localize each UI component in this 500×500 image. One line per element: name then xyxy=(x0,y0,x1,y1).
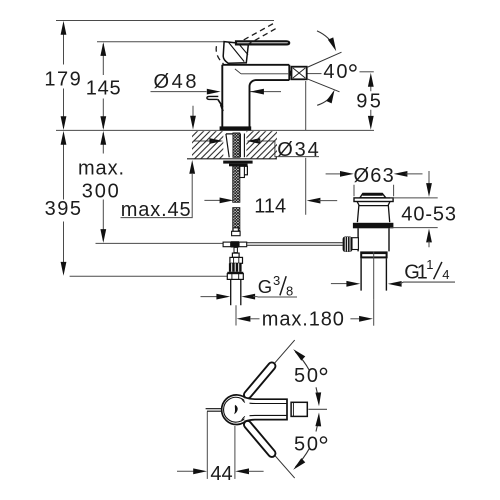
svg-text:179: 179 xyxy=(44,68,82,90)
deck hatching right xyxy=(246,131,277,158)
dimension max.180 xyxy=(236,300,374,326)
side outlet knurled knob xyxy=(343,237,353,252)
waste collar xyxy=(360,251,387,258)
pop-up waste body xyxy=(358,228,389,251)
pop-up waste cap dome xyxy=(360,193,386,197)
svg-text:max.45: max.45 xyxy=(121,199,192,221)
handle mark (comma) xyxy=(234,405,237,414)
svg-text:95: 95 xyxy=(356,91,383,113)
body circle inner xyxy=(224,397,248,422)
svg-text:G: G xyxy=(258,276,272,297)
svg-text:4: 4 xyxy=(442,267,449,282)
spout inner line xyxy=(235,69,288,74)
svg-text:300: 300 xyxy=(82,181,121,203)
svg-text:145: 145 xyxy=(86,78,121,100)
svg-text:114: 114 xyxy=(254,195,286,217)
spray nozzle connector xyxy=(290,71,292,76)
handle arm lower (50 deg) xyxy=(248,425,272,454)
supply connector body xyxy=(230,257,243,263)
svg-text:50: 50 xyxy=(294,365,320,387)
pop-up rod in hole xyxy=(240,134,244,158)
dimension Ø63 xyxy=(326,171,423,196)
shank cone in deck hole xyxy=(226,134,233,157)
spray angle fan lines xyxy=(307,52,342,92)
reference line lever height 145 xyxy=(97,41,224,43)
threaded shank through deck xyxy=(233,133,240,157)
swivel line upper 50 xyxy=(249,340,295,393)
pop-up rod guide block xyxy=(240,166,248,175)
deck bottom line xyxy=(187,158,277,160)
handle lever (solid bar) xyxy=(236,41,289,44)
swivel arc lower xyxy=(291,412,322,471)
spout plan inner lines xyxy=(250,403,288,416)
body circle outer xyxy=(222,395,248,425)
supply stem xyxy=(234,247,237,252)
label G3/8 leader xyxy=(201,294,298,300)
pop-up rod horizontal (left reference) xyxy=(96,242,224,244)
svg-text:3: 3 xyxy=(273,273,280,288)
supply connector cap xyxy=(232,253,239,257)
supply pipe G3/8 xyxy=(231,279,241,305)
pop-up knob on body xyxy=(207,96,218,99)
svg-text:Ø34: Ø34 xyxy=(277,139,321,161)
dimension 395 xyxy=(61,131,67,276)
dimension 145 xyxy=(100,42,106,130)
tailpipe centerline xyxy=(373,251,375,299)
spout plan outline xyxy=(244,397,287,421)
degree symbol 50 upper xyxy=(320,368,326,374)
pop-up waste neck xyxy=(357,202,390,223)
label Ø34 with leader box xyxy=(194,138,320,157)
spout junction fillets xyxy=(242,399,245,420)
reference line bottom of supply (395) xyxy=(70,275,227,277)
faucet body outline (front view) xyxy=(222,65,289,127)
dimension 95 xyxy=(307,72,374,130)
dimension 179 xyxy=(61,21,67,130)
svg-text:max.180: max.180 xyxy=(262,309,345,331)
rod coupler xyxy=(233,228,238,231)
dimension 40-53 xyxy=(390,171,438,247)
threaded shank below deck (lower) xyxy=(233,208,240,232)
dimension max.300 xyxy=(100,131,106,243)
supply knurled nut xyxy=(229,263,242,272)
svg-text:1: 1 xyxy=(426,257,433,272)
pop-up rod horizontal to drain xyxy=(247,243,343,246)
handle arm upper (50 deg) xyxy=(248,366,272,395)
svg-text:8: 8 xyxy=(286,284,293,299)
base flange on deck xyxy=(220,126,252,130)
aerator plan xyxy=(291,402,307,416)
handle hub xyxy=(223,42,248,64)
pop-up cross connector xyxy=(223,242,231,247)
reference line top (overall height 179) xyxy=(56,20,274,22)
swivel arc upper xyxy=(291,347,322,406)
pop-up waste flange xyxy=(354,198,393,202)
svg-text:Ø48: Ø48 xyxy=(154,71,200,93)
mounting deck top line xyxy=(56,129,374,131)
svg-text:395: 395 xyxy=(45,198,83,220)
svg-text:40: 40 xyxy=(323,61,349,83)
svg-text:max.: max. xyxy=(78,157,125,179)
mounting nut below deck xyxy=(229,164,248,167)
slash G3/8 xyxy=(280,276,286,295)
deck hatching left xyxy=(192,131,223,158)
degree symbol 50 lower xyxy=(320,437,326,443)
svg-text:Ø63: Ø63 xyxy=(354,165,395,187)
handle lever raised (dashed) xyxy=(216,23,278,65)
spray nozzle (aerator) xyxy=(292,67,307,80)
svg-text:40-53: 40-53 xyxy=(401,204,457,226)
slash G1 1/4 xyxy=(434,262,442,279)
mounting washer below deck xyxy=(223,161,252,164)
pop-up waste O-ring xyxy=(353,223,394,229)
label G1 1/4 leader xyxy=(331,281,455,287)
spray angle arc arrows xyxy=(317,31,335,48)
dimension 44 xyxy=(177,412,264,479)
label Ø48 with leader xyxy=(151,89,282,95)
pop-up knob plan xyxy=(206,409,222,412)
svg-text:44: 44 xyxy=(210,463,232,485)
degree symbol 40 xyxy=(350,65,356,71)
supply hex nut xyxy=(227,272,243,274)
waste tailpipe xyxy=(361,258,386,290)
dimension max.45 xyxy=(121,106,196,218)
side outlet connector xyxy=(352,238,358,250)
dimension 114 xyxy=(204,81,337,215)
threaded shank below deck (upper) xyxy=(233,166,240,202)
swivel line lower 50 xyxy=(249,426,295,478)
plan centerline xyxy=(308,408,327,410)
svg-text:50: 50 xyxy=(294,434,320,456)
